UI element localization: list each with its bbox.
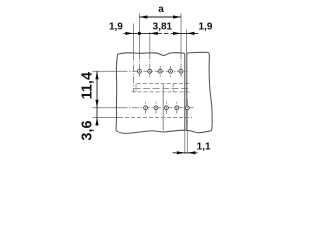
svg-text:1,9: 1,9 bbox=[199, 22, 213, 33]
svg-text:a: a bbox=[158, 4, 164, 15]
svg-text:11,4: 11,4 bbox=[80, 72, 96, 99]
svg-text:3,81: 3,81 bbox=[153, 22, 173, 33]
svg-text:1,9: 1,9 bbox=[109, 22, 123, 33]
svg-text:1,1: 1,1 bbox=[197, 142, 211, 153]
svg-text:3,6: 3,6 bbox=[80, 120, 96, 140]
